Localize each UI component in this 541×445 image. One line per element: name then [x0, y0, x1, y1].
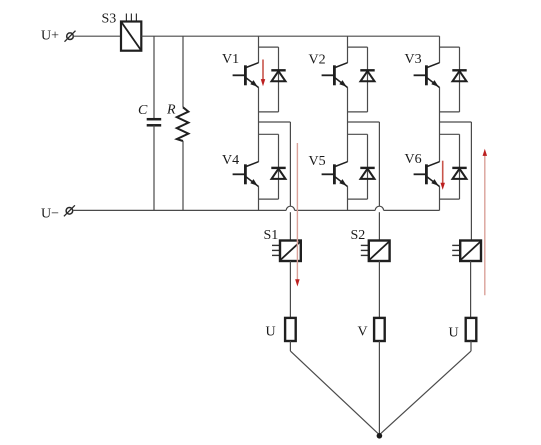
svg-text:U−: U− — [41, 207, 59, 222]
label U− — [41, 207, 59, 222]
wire phase leg1 below rail — [289, 212, 291, 240]
resistor R — [177, 107, 189, 141]
capacitor C — [147, 119, 162, 125]
sensor S1 — [280, 241, 301, 262]
svg-text:V: V — [358, 325, 368, 340]
transistor V1 — [233, 63, 259, 88]
wire winding V to star point — [378, 341, 380, 435]
label S3 — [102, 12, 117, 27]
red arrow current phase U down — [295, 143, 300, 287]
diode freewheeling diode of V3 — [452, 70, 466, 81]
wire DC- rail segment 1 — [73, 209, 287, 211]
label C — [138, 103, 148, 118]
red arrow current V6 — [440, 161, 445, 190]
wire phase leg2 below rail — [378, 212, 380, 240]
diode freewheeling diode of V1 — [271, 70, 285, 81]
wire phase output leg1 — [259, 122, 291, 206]
transistor V4 — [233, 162, 259, 187]
diode freewheeling diode of V6 — [452, 168, 466, 179]
winding W — [466, 318, 477, 341]
wire branch freewheeling diode of V2 — [348, 47, 368, 112]
label winding U (W) — [449, 326, 459, 341]
winding V — [374, 318, 385, 341]
winding U — [285, 318, 296, 341]
wire leg3 collector top — [439, 36, 441, 63]
wire R bottom — [182, 141, 184, 210]
label U+ — [41, 29, 59, 44]
red arrow current phase W up — [483, 149, 488, 296]
wire phase output leg2 — [348, 122, 380, 206]
hop phase U over DC- rail — [286, 206, 294, 210]
label S2 — [351, 228, 366, 243]
transistor V5 — [322, 162, 348, 187]
sensor S2 pins — [361, 245, 369, 255]
label winding U (U) — [266, 325, 276, 340]
wire branch freewheeling diode of V6 — [440, 134, 460, 199]
wire phase output leg3 — [440, 122, 472, 241]
wire leg1 middle — [258, 87, 260, 162]
svg-text:C: C — [138, 103, 148, 118]
wire branch freewheeling diode of V5 — [348, 134, 368, 199]
wire DC+ top rail — [141, 35, 439, 37]
svg-text:S2: S2 — [351, 228, 366, 243]
wire DC- rail segment 2 — [295, 209, 376, 211]
label winding V (V) — [358, 325, 368, 340]
svg-text:U: U — [266, 325, 276, 340]
hop phase V over DC- rail — [375, 206, 383, 210]
terminal U− — [64, 205, 75, 216]
wire leg2 collector top — [347, 36, 349, 63]
label V4 — [222, 153, 239, 168]
svg-text:R: R — [166, 103, 176, 118]
label V1 — [222, 52, 239, 67]
diode freewheeling diode of V5 — [360, 168, 374, 179]
wire winding W to star point — [379, 341, 471, 435]
wire C top — [153, 36, 155, 119]
svg-text:V3: V3 — [405, 52, 422, 67]
svg-text:V6: V6 — [405, 152, 422, 167]
label V6 — [405, 152, 422, 167]
transistor V2 — [322, 63, 348, 88]
transistor V3 — [414, 63, 440, 88]
svg-text:V4: V4 — [222, 153, 239, 168]
wire DC- rail segment 3 — [384, 209, 440, 211]
label V5 — [309, 154, 326, 169]
diode freewheeling diode of V2 — [360, 70, 374, 81]
sensor phase W current sensor (unlabeled) pins — [452, 245, 460, 255]
wire U+ to S3 — [73, 35, 121, 37]
sensor S2 — [369, 241, 390, 262]
label V3 — [405, 52, 422, 67]
svg-text:V1: V1 — [222, 52, 239, 67]
label S1 — [264, 228, 279, 243]
svg-text:U: U — [449, 326, 459, 341]
sensor S3 connector pins — [126, 14, 136, 22]
node star point — [377, 433, 383, 439]
terminal U+ — [65, 31, 76, 42]
transistor V6 — [414, 162, 440, 187]
wire leg1 emitter bottom — [258, 186, 260, 210]
svg-text:V2: V2 — [309, 53, 326, 68]
diode freewheeling diode of V4 — [271, 168, 285, 179]
label V2 — [309, 53, 326, 68]
wire sensor3 to winding W — [470, 261, 472, 318]
wire leg1 collector top — [258, 36, 260, 63]
wire leg3 emitter bottom — [439, 186, 441, 210]
wire R top — [182, 36, 184, 107]
svg-text:U+: U+ — [41, 29, 59, 44]
wire S1 to winding U — [289, 261, 291, 318]
label R — [166, 103, 176, 118]
wire winding U to star point — [290, 341, 379, 435]
wire branch freewheeling diode of V3 — [440, 47, 460, 112]
svg-text:V5: V5 — [309, 154, 326, 169]
wire branch freewheeling diode of V1 — [259, 47, 279, 112]
wire S2 to winding V — [378, 261, 380, 318]
sensor S1 pins — [272, 245, 280, 255]
wire leg3 middle — [439, 87, 441, 162]
svg-text:S3: S3 — [102, 12, 117, 27]
wire leg2 emitter bottom — [347, 186, 349, 210]
wire C bottom — [153, 125, 155, 210]
sensor phase W current sensor (unlabeled) — [460, 241, 481, 262]
sensor S3 — [121, 22, 141, 51]
svg-text:S1: S1 — [264, 228, 279, 243]
red arrow current V1 — [261, 60, 266, 87]
wire branch freewheeling diode of V4 — [259, 134, 279, 199]
wire leg2 middle — [347, 87, 349, 162]
